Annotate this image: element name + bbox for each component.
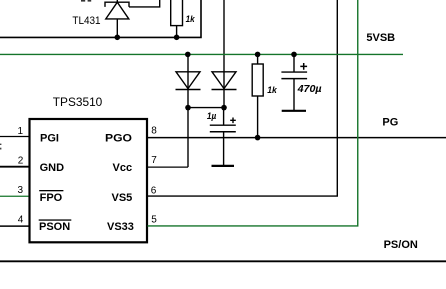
svg-text:FPO: FPO (40, 192, 63, 204)
top edge text fragment (81, 0, 85, 2)
capacitor C1 bottom lead (223, 132, 225, 165)
wire between D1 D2 (188, 107, 224, 109)
svg-text:6: 6 (151, 185, 157, 196)
svg-text:5: 5 (151, 214, 157, 225)
TL431 cathode bar with bent ends (105, 2, 129, 7)
pin numbers (17, 126, 157, 226)
capacitor C1 1u top lead (223, 108, 225, 126)
pin7 Vcc stub (148, 166, 189, 168)
pin1 stub (0, 136, 29, 138)
svg-text:PGO: PGO (105, 133, 132, 145)
PG line pin8 (148, 137, 446, 139)
TL431 anode lead (116, 19, 118, 37)
resistor R2 bottom lead (257, 96, 259, 138)
junction dots (115, 35, 121, 41)
capacitor C2 plates (281, 71, 307, 73)
svg-text:1k: 1k (186, 14, 196, 25)
svg-text:PGI: PGI (40, 133, 59, 145)
green vertical 3.3V to pin5 (148, 0, 358, 226)
capacitor C2 bottom lead (293, 79, 295, 110)
svg-text:VS5: VS5 (112, 192, 133, 204)
svg-text:PSON: PSON (39, 221, 70, 233)
capacitor C2 plus sign (300, 63, 307, 70)
resistor R-top 1k body (171, 0, 183, 26)
overline FPO (39, 190, 63, 191)
resistor R2 1k body (252, 64, 263, 96)
svg-text:4: 4 (18, 214, 24, 225)
pin4 stub (0, 225, 29, 227)
pin3 green stub (0, 195, 29, 197)
svg-text:VS33: VS33 (107, 221, 134, 233)
ground bar C2 (282, 110, 306, 112)
vertical wire to pin6 (148, 0, 338, 196)
svg-text:2: 2 (18, 155, 24, 166)
diode D2 (212, 72, 236, 89)
diode D1 lead column (187, 54, 189, 167)
green net 5VSB (0, 53, 403, 55)
svg-text:PS/ON: PS/ON (384, 239, 418, 251)
svg-text:PG: PG (382, 116, 398, 128)
capacitor C1 plus sign (230, 118, 236, 124)
TL431 ref wire (129, 0, 160, 7)
capacitor C2 470u top lead (293, 54, 295, 72)
resistor R2 1k top lead (257, 54, 259, 64)
PS/ON rail (0, 260, 446, 262)
diode D2 top column (223, 0, 225, 108)
svg-text:TL431: TL431 (72, 15, 100, 27)
TL431 triangle (106, 2, 129, 19)
svg-text:5VSB: 5VSB (366, 32, 395, 44)
resistor R-top 1k lead (176, 26, 178, 38)
IC U1 TPS3510 body (30, 119, 148, 242)
svg-text:TPS3510: TPS3510 (53, 95, 103, 109)
svg-text:GND: GND (40, 162, 65, 174)
svg-text:1µ: 1µ (207, 111, 217, 122)
svg-text:3: 3 (17, 185, 23, 196)
left edge text fragment (0, 144, 1, 145)
diode D1 (176, 72, 200, 89)
pin2 stub thick (0, 166, 29, 168)
wire net A horizontal (0, 0, 201, 37)
TL431 cathode lead (116, 0, 118, 2)
svg-text:1: 1 (17, 126, 23, 137)
overline PSON (39, 219, 72, 220)
svg-text:Vcc: Vcc (113, 162, 133, 174)
svg-text:1k: 1k (267, 85, 277, 96)
svg-text:7: 7 (151, 155, 157, 166)
svg-text:8: 8 (151, 126, 157, 137)
capacitor C1 plates (210, 124, 236, 126)
svg-text:470µ: 470µ (297, 83, 322, 95)
ground bar C1 (212, 165, 235, 167)
